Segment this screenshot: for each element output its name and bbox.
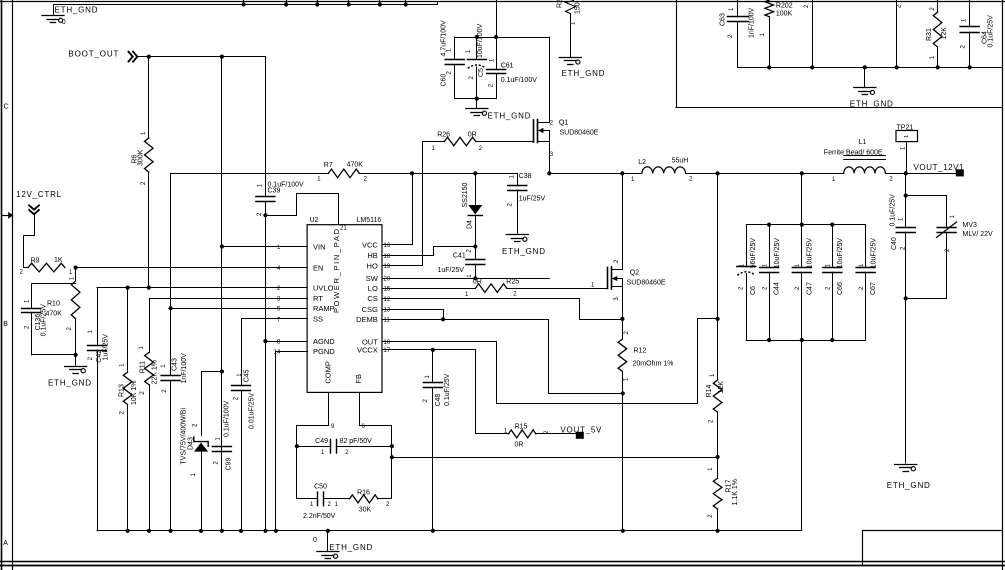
svg-text:CS: CS (367, 294, 377, 303)
svg-text:20: 20 (384, 277, 391, 283)
svg-text:Q1: Q1 (559, 120, 568, 127)
svg-text:10uF/100V: 10uF/100V (477, 23, 484, 58)
svg-text:CSG: CSG (362, 305, 378, 314)
svg-text:0R: 0R (468, 132, 477, 139)
svg-text:1nF/100V: 1nF/100V (748, 7, 755, 38)
wire OUT row (383, 319, 718, 404)
svg-text:B: B (3, 321, 8, 328)
svg-text:U2: U2 (310, 217, 319, 224)
resistor R2 150 (566, 1, 576, 57)
svg-text:R12: R12 (634, 348, 647, 355)
svg-text:HO: HO (367, 262, 378, 271)
resistor R15 0R (509, 430, 536, 438)
svg-text:SS: SS (313, 315, 323, 324)
svg-text:0.1uF/25V: 0.1uF/25V (444, 373, 451, 406)
svg-text:1.1K 1%: 1.1K 1% (732, 479, 739, 505)
varistor MV3 MLV/22V (906, 196, 947, 228)
svg-text:0.01uF/25V: 0.01uF/25V (249, 392, 256, 429)
svg-text:ETH_GND: ETH_GND (55, 5, 98, 14)
svg-text:VCCX: VCCX (357, 346, 378, 355)
junction (473, 244, 477, 248)
wire VCC pin riser (383, 174, 413, 245)
junction (315, 2, 319, 6)
resistor R14 12K (713, 380, 722, 412)
svg-text:R25: R25 (506, 278, 519, 285)
capacitor C45 0.01uF/25V (232, 385, 251, 387)
svg-text:0.1uF/25V: 0.1uF/25V (890, 194, 897, 227)
resistor R202 100K (765, 0, 774, 17)
capacitor C40 0.1uF/25V (896, 227, 915, 229)
junction (810, 65, 814, 69)
junction (904, 171, 908, 175)
resistor R11 22K 1% (145, 352, 154, 384)
wire ETH_GND bottom bus (97, 530, 802, 532)
capacitor C63 (737, 0, 739, 17)
wire cap bank top bus (746, 224, 865, 226)
svg-text:AGND: AGND (313, 337, 335, 346)
svg-text:VCC: VCC (362, 240, 378, 249)
port VOUT_12V1 square (956, 169, 964, 176)
wire from off-page (896, 0, 898, 67)
diode D43 TVS (194, 436, 208, 447)
svg-text:14: 14 (274, 350, 281, 356)
capacitor C60 (454, 37, 456, 59)
diode D4 SS2150 (475, 173, 477, 205)
svg-text:0.1uF/100V: 0.1uF/100V (224, 400, 231, 437)
wire rail left segment (171, 173, 329, 175)
svg-text:C67: C67 (870, 282, 877, 295)
wire UVLO row (97, 287, 307, 289)
junction (284, 2, 288, 6)
junction (968, 65, 972, 69)
wire L2 to L1 (686, 173, 844, 175)
wire cap bank riser (801, 173, 803, 224)
ground symbol C40 (895, 464, 917, 466)
svg-text:C63: C63 (720, 13, 727, 26)
frame zone arrow marker (2, 215, 8, 217)
wire comp network top-left (297, 426, 329, 499)
wire SS row (242, 319, 308, 386)
svg-text:SW: SW (366, 274, 379, 283)
svg-text:10K 1%: 10K 1% (131, 380, 138, 405)
junction (431, 529, 435, 533)
svg-text:1uF/25V: 1uF/25V (438, 267, 465, 274)
junction (126, 529, 130, 533)
sub-circuit border box top-right (676, 0, 678, 108)
svg-text:C39: C39 (268, 187, 281, 194)
svg-text:L2: L2 (638, 159, 646, 166)
junction (147, 529, 151, 533)
svg-text:C61: C61 (501, 62, 514, 69)
wire stub from off-page to ETH_GND bus (243, 0, 245, 5)
svg-text:56uF/25V: 56uF/25V (750, 238, 757, 269)
capacitor C39 (256, 196, 275, 198)
capacitor C61 (496, 37, 498, 69)
wire PGND row (276, 352, 308, 531)
junction (263, 529, 267, 533)
junction (74, 266, 78, 270)
svg-text:R9: R9 (31, 257, 40, 264)
svg-text:0: 0 (313, 537, 317, 544)
page frame right border (1002, 0, 1004, 570)
junction (390, 455, 394, 459)
resistor R31 12K (937, 0, 939, 12)
svg-text:C41: C41 (453, 253, 466, 260)
capacitor C41 1uF/25V (475, 247, 477, 260)
wire SW row (382, 278, 549, 280)
svg-text:ETH_GND: ETH_GND (562, 69, 605, 78)
svg-text:Q2: Q2 (630, 270, 639, 277)
svg-text:30K: 30K (359, 507, 372, 514)
wire DEMB row (383, 320, 623, 394)
svg-text:C49: C49 (315, 438, 328, 445)
svg-text:11: 11 (384, 318, 391, 324)
svg-text:ETH_GND: ETH_GND (329, 543, 372, 552)
svg-text:12K: 12K (718, 381, 725, 394)
svg-text:A: A (3, 540, 8, 547)
wire stub from off-page to ETH_GND bus (405, 0, 407, 5)
svg-text:55uH: 55uH (672, 157, 689, 164)
svg-text:COMP: COMP (323, 361, 332, 384)
svg-text:19: 19 (384, 264, 391, 270)
junction (74, 353, 78, 357)
svg-text:Ferrite Bead/ 600E: Ferrite Bead/ 600E (824, 150, 883, 157)
svg-text:R11: R11 (140, 361, 147, 373)
capacitor C136 0.1uF/25V (32, 284, 76, 309)
svg-text:10uF/25V: 10uF/25V (837, 238, 844, 269)
capacitor C38 1uF/25V (517, 173, 519, 185)
wire stub from off-page to ETH_GND bus (348, 0, 350, 5)
junction (220, 529, 224, 533)
test point TP21 (896, 131, 918, 142)
capacitor C5 (polarized) (476, 37, 478, 60)
svg-text:HB: HB (367, 251, 377, 260)
junction (895, 65, 899, 69)
svg-text:C50: C50 (314, 484, 327, 491)
capacitor C49 82pF/50V (297, 446, 331, 448)
svg-text:D43: D43 (188, 437, 195, 450)
resistor R12 20mOhm 1% (622, 319, 624, 339)
capacitor C47 10uF/25V (801, 225, 803, 268)
capacitor C42 1uF/25V (97, 288, 99, 346)
svg-text:150: 150 (574, 2, 581, 14)
svg-text:0.1uF/25V: 0.1uF/25V (40, 304, 47, 337)
junction (274, 529, 278, 533)
capacitor C43 1nF/100V line (170, 173, 172, 375)
svg-text:1uF/25V: 1uF/25V (519, 195, 546, 202)
junction (263, 213, 267, 217)
junction (475, 35, 479, 39)
wire VCCX row (382, 349, 433, 351)
junction (242, 2, 246, 6)
svg-text:16: 16 (384, 243, 391, 249)
junction (904, 194, 908, 198)
ground symbol input caps (476, 99, 478, 108)
svg-text:ETH_GND: ETH_GND (850, 99, 893, 108)
junction (410, 171, 414, 175)
wire RT row (150, 299, 308, 353)
port BOOT_OUT chevron (128, 51, 137, 62)
svg-text:C47: C47 (806, 282, 813, 295)
wire VCCX to R15 (433, 350, 509, 434)
svg-text:10uF/25V: 10uF/25V (870, 238, 877, 269)
svg-text:300K: 300K (138, 149, 145, 166)
svg-text:RAMP: RAMP (313, 304, 335, 313)
junction (378, 2, 382, 6)
capacitor C48 0.1uF/25V (432, 350, 434, 383)
page frame left inner border (12, 0, 14, 570)
resistor R26 0R (444, 137, 475, 146)
capacitor C67 10uF/25V (865, 225, 867, 268)
port VOUT_5V square (576, 432, 584, 439)
svg-text:C43: C43 (171, 358, 178, 371)
svg-text:FB: FB (354, 374, 363, 384)
svg-text:ETH_GND: ETH_GND (887, 481, 930, 490)
wire stub from off-page to ETH_GND bus (317, 0, 319, 5)
svg-text:R15: R15 (515, 424, 528, 431)
wire top-right ground bus (738, 67, 1002, 69)
svg-text:ETH_GND: ETH_GND (48, 378, 91, 387)
junction (767, 223, 771, 227)
junction (904, 296, 908, 300)
capacitor C64 (969, 0, 971, 27)
svg-text:TVS/75V/400W/Bi: TVS/75V/400W/Bi (180, 408, 187, 465)
wire comp network top-right (360, 426, 392, 499)
capacitor C50 2.2nF/50V (317, 492, 319, 506)
junction (475, 97, 479, 101)
wire R12 to ground bus (622, 393, 624, 530)
transistor Q1 SUD80460E (533, 120, 535, 142)
svg-text:R7: R7 (324, 162, 333, 169)
svg-text:L1: L1 (859, 139, 867, 146)
svg-text:ETH_GND: ETH_GND (488, 112, 531, 121)
wire EN row (76, 267, 308, 269)
junction (199, 529, 203, 533)
svg-text:LO: LO (368, 284, 378, 293)
wire 12V_CTRL to R9 (24, 215, 35, 268)
svg-text:15: 15 (384, 287, 391, 293)
svg-text:RT: RT (313, 294, 323, 303)
capacitor C6 56uF/25V (polarized) (746, 225, 748, 267)
svg-text:R2: R2 (556, 0, 563, 8)
svg-text:C38: C38 (519, 173, 532, 180)
wire FB pin drop (359, 392, 361, 425)
svg-text:SUD80460E: SUD80460E (627, 280, 666, 287)
svg-text:18: 18 (384, 254, 391, 260)
capacitor C44 10uF/25V (769, 225, 771, 268)
svg-text:UVLO: UVLO (313, 283, 334, 292)
junction (404, 2, 408, 6)
svg-text:R31: R31 (926, 28, 933, 41)
svg-text:12V_CTRL: 12V_CTRL (16, 190, 62, 199)
svg-text:C66: C66 (837, 282, 844, 295)
ground symbol R2 (559, 57, 581, 59)
svg-text:R202: R202 (776, 3, 793, 10)
svg-text:SS2150: SS2150 (462, 182, 469, 207)
resistor R16 30K (350, 495, 378, 503)
svg-text:C99: C99 (225, 458, 232, 471)
wire BOOT_OUT drop to VIN and C99 (221, 57, 223, 531)
wire VOUT sense drop (717, 173, 719, 380)
svg-text:0R: 0R (515, 442, 524, 449)
svg-text:0: 0 (62, 19, 66, 26)
junction (473, 276, 477, 280)
svg-text:82 pF/50V: 82 pF/50V (340, 438, 373, 445)
wire C39 to POWER_PIN_PAD pin 21 (266, 194, 339, 225)
svg-text:MV3: MV3 (963, 222, 978, 229)
svg-text:1K: 1K (54, 257, 63, 264)
wire D43 branch (202, 372, 222, 436)
wire cap bank to ground bus (801, 341, 803, 531)
junction (767, 338, 771, 342)
svg-text:C60: C60 (440, 74, 447, 87)
junction (295, 444, 299, 448)
junction (169, 529, 173, 533)
junction (767, 65, 771, 69)
wire stub from off-page to ETH_GND bus (379, 0, 381, 5)
junction (326, 529, 330, 533)
ground symbol top-right box (864, 67, 866, 87)
svg-text:1: 1 (904, 135, 910, 138)
junction (147, 55, 151, 59)
svg-text:0R: 0R (473, 279, 482, 286)
wire rail left segment cont (359, 173, 517, 175)
junction (431, 348, 435, 352)
page frame bottom border (0, 561, 1005, 563)
junction (347, 2, 351, 6)
svg-text:C6: C6 (750, 286, 757, 295)
junction (239, 529, 243, 533)
junction (220, 369, 224, 373)
junction (126, 286, 130, 290)
transistor Q2 SUD80460E (607, 268, 609, 289)
wire CS row (383, 299, 623, 320)
resistor R17 1.1K 1% (717, 457, 719, 478)
svg-text:C5: C5 (478, 68, 485, 77)
inductor L1 Ferrite Bead/600E (844, 167, 886, 174)
resistor R7 470K (328, 169, 359, 178)
junction (547, 171, 551, 175)
resistor R25 0R (476, 284, 507, 293)
ground symbol top-left (53, 5, 55, 15)
svg-text:R13: R13 (118, 384, 125, 397)
wire HO pin to R26 (383, 142, 445, 266)
junction (936, 65, 940, 69)
wire VIN row (222, 246, 307, 248)
svg-text:C45: C45 (243, 369, 250, 382)
wire COMP pin drop (328, 392, 330, 425)
capacitor C99 plates (212, 446, 231, 448)
svg-text:R16: R16 (357, 489, 370, 496)
svg-text:0.1uF/100V: 0.1uF/100V (501, 77, 538, 84)
svg-text:R10: R10 (47, 301, 60, 308)
junction (716, 171, 720, 175)
ground symbol R10/C136 (75, 355, 77, 365)
wire RAMP row (171, 308, 308, 310)
wire AGND row (265, 341, 307, 343)
wire CSG row (383, 310, 444, 320)
wire from off-page (812, 0, 814, 67)
wire R26 to Q1 gate (476, 141, 534, 143)
svg-text:TP21: TP21 (897, 124, 914, 131)
wire ETH_GND top bus (54, 2, 438, 5)
ground symbol C38 (506, 234, 528, 236)
svg-text:10uF/25V: 10uF/25V (774, 238, 781, 269)
junction (716, 529, 720, 533)
svg-text:2.2nF/50V: 2.2nF/50V (303, 513, 336, 520)
wire input cap top rail (455, 37, 550, 39)
wire R15 to VOUT_5V port (536, 433, 576, 435)
svg-text:ETH_GND: ETH_GND (502, 247, 545, 256)
wire LO row to R25 (382, 288, 476, 290)
wire BOOT_OUT to C39 (265, 57, 267, 197)
junction (263, 339, 267, 343)
svg-text:470K: 470K (46, 310, 63, 317)
svg-text:C48: C48 (435, 394, 442, 407)
junction (169, 306, 173, 310)
junction (621, 391, 625, 395)
svg-text:PGND: PGND (313, 347, 335, 356)
page frame top border (0, 1, 1005, 3)
svg-text:100K: 100K (776, 10, 793, 17)
resistor R6 300K (148, 57, 150, 138)
svg-text:C40: C40 (891, 237, 898, 250)
svg-text:1uF/25V: 1uF/25V (103, 334, 110, 361)
svg-text:C: C (4, 104, 9, 111)
svg-text:LM5116: LM5116 (357, 217, 382, 224)
wire R25 to Q2 gate (507, 288, 608, 290)
svg-text:10uF/25V: 10uF/25V (807, 238, 814, 269)
wire input feed from off-page (496, 0, 498, 37)
svg-text:470K: 470K (347, 161, 364, 168)
junction (441, 317, 445, 321)
svg-text:C44: C44 (774, 282, 781, 295)
title block border (863, 530, 1003, 532)
svg-text:20mOhm 1%: 20mOhm 1% (633, 361, 674, 368)
resistor R13 10K 1% (127, 288, 129, 373)
svg-text:12: 12 (384, 297, 391, 303)
page frame left outer border (1, 0, 3, 570)
resistor R10 470K (75, 268, 77, 281)
wire VOUT to C40 (905, 173, 907, 227)
svg-text:DEMB: DEMB (356, 315, 378, 324)
wire SW rail right (549, 173, 642, 175)
svg-text:12K: 12K (941, 27, 948, 40)
wire cap bank bottom bus (746, 340, 865, 342)
junction (621, 529, 625, 533)
svg-text:D4: D4 (466, 220, 473, 229)
port 12V_CTRL chevron (28, 205, 39, 214)
junction (620, 317, 624, 321)
wire HB pin to bootstrap node (383, 247, 476, 256)
junction (220, 244, 224, 248)
op-amp U2 LM5116 body (307, 225, 382, 393)
svg-text:SUD80460E: SUD80460E (560, 130, 599, 137)
svg-text:1nF/100V: 1nF/100V (181, 353, 188, 384)
wire L1 to VOUT port (885, 173, 956, 175)
capacitor C66 10uF/25V (832, 225, 834, 268)
svg-text:BOOT_OUT: BOOT_OUT (68, 50, 118, 59)
svg-text:22K 1%: 22K 1% (151, 360, 158, 385)
svg-text:MLV/ 22V: MLV/ 22V (963, 231, 994, 238)
wire stub from off-page to ETH_GND bus (286, 0, 288, 5)
svg-text:13: 13 (384, 307, 391, 313)
junction (716, 455, 720, 459)
junction (716, 317, 720, 321)
wire BOOT_OUT (138, 56, 266, 58)
svg-text:0.1uF/25V: 0.1uF/25V (987, 15, 994, 48)
ground symbol bottom bus (327, 531, 329, 551)
